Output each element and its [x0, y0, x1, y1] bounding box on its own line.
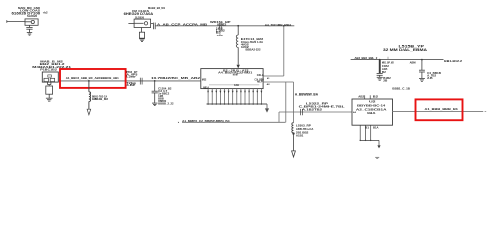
svg-text:2B: 2B: [383, 80, 387, 83]
svg-text:42: 42: [267, 83, 271, 86]
svg-text:1BA: 1BA: [367, 111, 377, 115]
svg-text:BBBB_2_22: BBBB_2_22: [158, 102, 174, 105]
svg-text:ABM: ABM: [410, 62, 416, 65]
svg-text:A.1B2TB2: A.1B2TB2: [302, 107, 323, 111]
svg-text:CAB: CAB: [234, 83, 239, 87]
svg-text:B1: B1: [365, 126, 370, 129]
svg-text:4.BP: 4.BP: [126, 84, 136, 87]
svg-text:BBBA2-222: BBBA2-222: [246, 48, 262, 52]
svg-text:»: »: [178, 120, 180, 124]
svg-text:MAB2_B2_M1: MAB2_B2_M1: [148, 6, 165, 10]
svg-text:A_AB_CCP_ACCPA_MB: A_AB_CCP_ACCPA_MB: [157, 22, 208, 26]
svg-text:A1_MMP3_C2_BB(BP-BBB)_B4: A1_MMP3_C2_BB(BP-BBB)_B4: [182, 119, 230, 123]
svg-text:A4_70C1MB_MBA: A4_70C1MB_MBA: [265, 23, 292, 27]
svg-text:A1B1: A1B1: [296, 135, 304, 138]
svg-text:C2LA: C2LA: [257, 73, 264, 77]
svg-text:=2=: =2=: [217, 35, 224, 37]
svg-text:SLD026: SLD026: [27, 15, 38, 18]
svg-text:0.5B2: 0.5B2: [217, 24, 227, 27]
svg-text:10.7MHZ/BC_MB_AB2: 10.7MHZ/BC_MB_AB2: [151, 76, 200, 80]
svg-text:A2: A2: [353, 111, 357, 114]
svg-text:A1_BBC2_ABB_BC_ABCBBBCB_AB1: A1_BBC2_ABB_BC_ABCBBBCB_AB1: [66, 76, 119, 80]
svg-text:MB1A: MB1A: [203, 85, 209, 89]
svg-text:MLP: MLP: [257, 80, 263, 84]
svg-text:A_BBWBW_BA: A_BBWBW_BA: [295, 93, 319, 97]
svg-text:SLD026: SLD026: [135, 17, 145, 20]
svg-text:32 MM D/AL_EBMA: 32 MM D/AL_EBMA: [383, 48, 428, 52]
svg-text:A1_BBB_BBB_B1: A1_BBB_BBB_B1: [425, 107, 459, 111]
svg-text:B2: B2: [382, 71, 387, 74]
svg-text:L3aw: L3aw: [126, 76, 135, 79]
svg-text:12B: 12B: [92, 98, 97, 101]
svg-text:6HEG29 D7A0A: 6HEG29 D7A0A: [124, 12, 154, 16]
svg-text:41: 41: [267, 77, 270, 80]
svg-text:BB1-B12.2: BB1-B12.2: [444, 59, 462, 63]
svg-text:B1A: B1A: [373, 126, 379, 129]
svg-text:2.B: 2.B: [427, 77, 433, 80]
svg-text:L5303_RP: L5303_RP: [296, 123, 311, 127]
svg-text:NAM: NAM: [233, 72, 238, 76]
svg-text:P1BC1B2: P1BC1B2: [40, 67, 57, 71]
svg-text:AB3_BB2_BBL_2: AB3_BB2_BBL_2: [355, 56, 378, 60]
svg-text:BBB1_C_1B: BBB1_C_1B: [392, 87, 410, 91]
svg-text:B2: B2: [373, 94, 379, 98]
svg-text:AB2: AB2: [358, 94, 365, 98]
svg-text:+b2: +b2: [43, 11, 48, 15]
svg-text:M32: M32: [202, 77, 207, 81]
